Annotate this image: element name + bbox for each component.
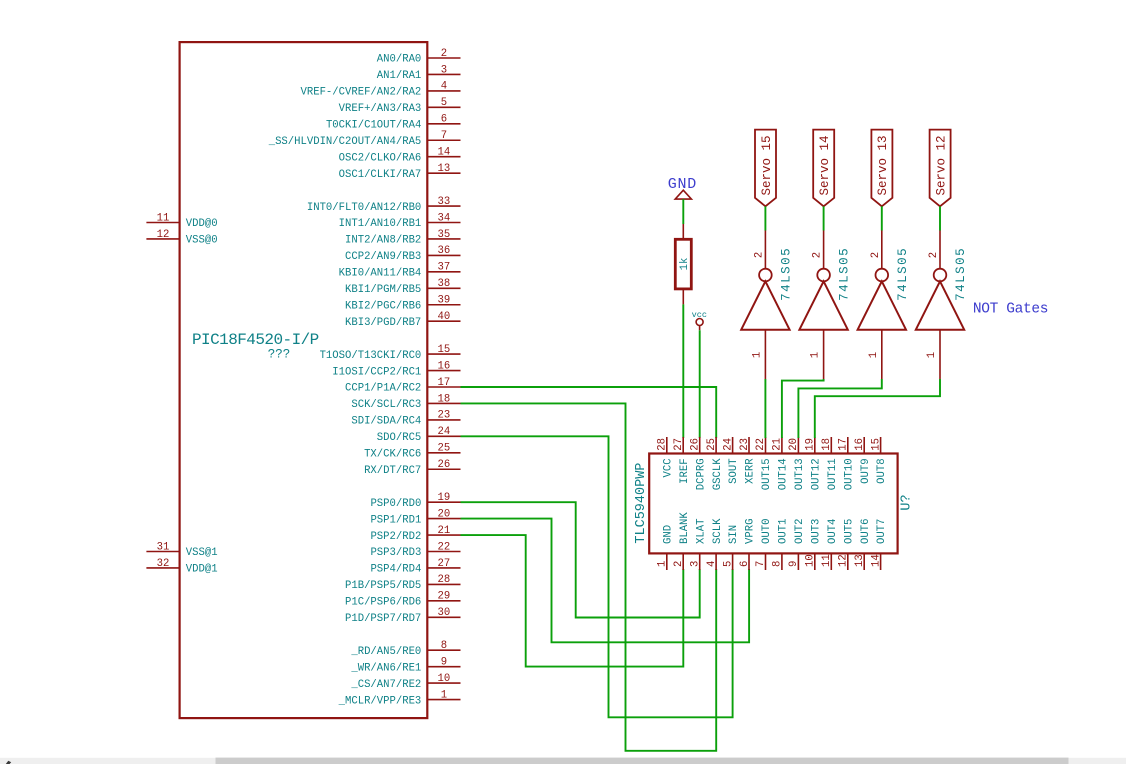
global label Servo 12 xyxy=(930,130,951,207)
svg-text:8: 8 xyxy=(772,561,784,567)
IC U1 PIC18F4520-I/P body xyxy=(180,42,428,718)
wire RC5/SDO to TLC pin5 SIN xyxy=(461,436,733,717)
svg-text:2: 2 xyxy=(928,252,940,258)
svg-text:4: 4 xyxy=(706,561,718,567)
svg-text:7: 7 xyxy=(441,130,447,142)
wire gate 4 input to TLC xyxy=(815,379,940,438)
svg-text:U?: U? xyxy=(899,494,914,510)
svg-text:34: 34 xyxy=(438,212,451,224)
svg-text:37: 37 xyxy=(438,262,451,274)
svg-text:IREF: IREF xyxy=(679,458,691,483)
pin 32 VDD@1 xyxy=(146,558,217,576)
svg-text:PSP3/RD3: PSP3/RD3 xyxy=(370,547,421,559)
svg-text:10: 10 xyxy=(438,673,451,685)
svg-text:VDD@1: VDD@1 xyxy=(186,564,218,576)
svg-text:NOT Gates: NOT Gates xyxy=(973,301,1048,317)
svg-text:SDO/RC5: SDO/RC5 xyxy=(377,432,422,444)
svg-text:KBI0/AN11/RB4: KBI0/AN11/RB4 xyxy=(339,268,422,280)
svg-text:16: 16 xyxy=(438,360,451,372)
pin 11 VDD@0 xyxy=(146,212,217,230)
svg-text:8: 8 xyxy=(441,640,447,652)
wire Servo 12 to gate input xyxy=(939,206,941,230)
TLC pin 2 BLANK xyxy=(673,512,691,570)
pin 9 _WR/AN6/RE1 xyxy=(350,656,460,674)
pin 20 PSP1/RD1 xyxy=(370,508,460,526)
svg-text:_SS/HLVDIN/C2OUT/AN4/RA5: _SS/HLVDIN/C2OUT/AN4/RA5 xyxy=(268,136,422,148)
pin 24 SDO/RC5 xyxy=(377,426,461,444)
NOT gate U?A 74LS05 xyxy=(741,231,793,380)
svg-text:PSP1/RD1: PSP1/RD1 xyxy=(370,514,421,526)
svg-text:1: 1 xyxy=(810,352,822,358)
wire vcc to TLC pin26 DCPRG xyxy=(699,330,701,438)
TLC pin 26 DCPRG xyxy=(689,437,707,490)
wire gate 2 input to TLC xyxy=(782,379,824,438)
svg-text:OSC1/CLKI/RA7: OSC1/CLKI/RA7 xyxy=(339,169,422,181)
TLC pin 12 OUT5 xyxy=(838,519,856,570)
pin 38 KBI1/PGM/RB5 xyxy=(345,278,460,296)
pin 19 PSP0/RD0 xyxy=(370,492,460,510)
svg-text:25: 25 xyxy=(706,438,718,451)
pin 16 I1OSI/CCP2/RC1 xyxy=(332,360,460,378)
pin 4 VREF-/CVREF/AN2/RA2 xyxy=(301,81,461,99)
svg-text:VCC: VCC xyxy=(662,458,674,477)
svg-text:P1D/PSP7/RD7: P1D/PSP7/RD7 xyxy=(345,613,421,625)
svg-text:_CS/AN7/RE2: _CS/AN7/RE2 xyxy=(350,679,421,691)
wire Servo 13 to gate input xyxy=(881,206,883,230)
svg-text:12: 12 xyxy=(157,229,170,241)
TLC pin 11 OUT4 xyxy=(821,519,839,570)
TLC pin 28 VCC xyxy=(657,437,675,477)
pin 40 KBI3/PGD/RB7 xyxy=(345,311,460,329)
svg-text:Servo 15: Servo 15 xyxy=(760,135,774,195)
svg-text:22: 22 xyxy=(755,438,767,451)
svg-text:2: 2 xyxy=(753,252,765,258)
scrollbar track xyxy=(0,758,1126,764)
svg-text:10: 10 xyxy=(805,554,817,567)
pin 13 OSC1/CLKI/RA7 xyxy=(339,163,461,181)
svg-text:T0CKI/C1OUT/RA4: T0CKI/C1OUT/RA4 xyxy=(326,120,421,132)
svg-text:PIC18F4520-I/P: PIC18F4520-I/P xyxy=(192,331,319,349)
cursor glyph bottom-left xyxy=(6,761,11,764)
pin 5 VREF+/AN3/RA3 xyxy=(339,97,461,115)
svg-text:OUT7: OUT7 xyxy=(876,519,888,544)
svg-text:74LS05: 74LS05 xyxy=(954,247,968,301)
TLC pin 22 OUT15 xyxy=(755,437,773,490)
power symbol vcc xyxy=(692,310,707,330)
svg-text:OUT4: OUT4 xyxy=(827,519,839,544)
svg-text:31: 31 xyxy=(157,541,170,553)
svg-text:24: 24 xyxy=(722,438,734,451)
svg-text:SOUT: SOUT xyxy=(728,458,740,483)
svg-text:2: 2 xyxy=(441,48,447,60)
svg-text:T1OSO/T13CKI/RC0: T1OSO/T13CKI/RC0 xyxy=(320,350,422,362)
svg-text:4: 4 xyxy=(441,81,447,93)
svg-text:3: 3 xyxy=(441,64,447,76)
svg-text:2: 2 xyxy=(812,252,824,258)
svg-text:11: 11 xyxy=(157,212,170,224)
svg-text:74LS05: 74LS05 xyxy=(779,247,793,301)
svg-text:14: 14 xyxy=(438,147,451,159)
svg-text:20: 20 xyxy=(438,508,451,520)
pin 34 INT1/AN10/RB1 xyxy=(339,212,461,230)
scrollbar thumb xyxy=(216,758,1069,764)
svg-text:GND: GND xyxy=(662,525,674,544)
svg-text:VREF-/CVREF/AN2/RA2: VREF-/CVREF/AN2/RA2 xyxy=(301,87,422,99)
svg-text:OUT13: OUT13 xyxy=(794,458,806,490)
svg-text:1: 1 xyxy=(868,352,880,358)
svg-text:74LS05: 74LS05 xyxy=(838,247,852,301)
pin 15 T1OSO/T13CKI/RC0 xyxy=(320,344,461,362)
svg-text:Servo 14: Servo 14 xyxy=(818,135,832,195)
pin 30 P1D/PSP7/RD7 xyxy=(345,607,460,625)
svg-text:VSS@0: VSS@0 xyxy=(186,235,218,247)
svg-text:1k: 1k xyxy=(679,258,691,271)
pin 28 P1B/PSP5/RD5 xyxy=(345,574,460,592)
svg-text:20: 20 xyxy=(788,438,800,451)
IC U? TLC5940PWP body xyxy=(649,454,897,554)
TLC pin 16 OUT9 xyxy=(854,437,872,484)
svg-text:18: 18 xyxy=(821,438,833,451)
wire GND to resistor xyxy=(682,199,684,224)
svg-text:CCP2/AN9/RB3: CCP2/AN9/RB3 xyxy=(345,251,421,263)
svg-text:OUT3: OUT3 xyxy=(810,519,822,544)
svg-text:21: 21 xyxy=(772,438,784,451)
pin 3 AN1/RA1 xyxy=(377,64,461,82)
power symbol GND xyxy=(668,176,697,199)
TLC pin 5 SIN xyxy=(722,525,740,570)
svg-text:OUT6: OUT6 xyxy=(860,519,872,544)
svg-text:23: 23 xyxy=(739,438,751,451)
TLC pin 1 GND xyxy=(657,525,675,570)
pin 14 OSC2/CLKO/RA6 xyxy=(339,147,461,165)
svg-text:19: 19 xyxy=(438,492,451,504)
svg-text:VREF+/AN3/RA3: VREF+/AN3/RA3 xyxy=(339,103,422,115)
svg-text:1: 1 xyxy=(657,561,669,567)
svg-text:13: 13 xyxy=(854,554,866,567)
svg-text:38: 38 xyxy=(438,278,451,290)
svg-text:BLANK: BLANK xyxy=(679,512,691,544)
svg-text:KBI2/PGC/RB6: KBI2/PGC/RB6 xyxy=(345,300,421,312)
svg-text:CCP1/P1A/RC2: CCP1/P1A/RC2 xyxy=(345,383,421,395)
svg-text:VDD@0: VDD@0 xyxy=(186,218,218,230)
pin 1 _MCLR/VPP/RE3 xyxy=(338,689,461,707)
TLC pin 18 OUT11 xyxy=(821,437,839,490)
TLC pin 3 XLAT xyxy=(689,519,707,570)
TLC pin 21 OUT14 xyxy=(772,437,790,490)
TLC pin 4 SCLK xyxy=(706,518,724,570)
svg-text:AN1/RA1: AN1/RA1 xyxy=(377,70,422,82)
svg-text:3: 3 xyxy=(689,561,701,567)
svg-text:36: 36 xyxy=(438,245,451,257)
TLC pin 17 OUT10 xyxy=(838,437,856,490)
svg-text:AN0/RA0: AN0/RA0 xyxy=(377,54,422,66)
svg-text:18: 18 xyxy=(438,393,451,405)
svg-text:_RD/AN5/RE0: _RD/AN5/RE0 xyxy=(350,646,421,658)
wire Servo 14 to gate input xyxy=(823,206,825,230)
pin 23 SDI/SDA/RC4 xyxy=(351,410,460,428)
pin 39 KBI2/PGC/RB6 xyxy=(345,295,460,313)
svg-text:39: 39 xyxy=(438,295,451,307)
svg-text:SDI/SDA/RC4: SDI/SDA/RC4 xyxy=(351,416,421,428)
TLC pin 13 OUT6 xyxy=(854,519,872,570)
wire gate 1 input to TLC xyxy=(764,379,766,438)
svg-text:12: 12 xyxy=(838,554,850,567)
svg-text:17: 17 xyxy=(838,438,850,451)
wire RD0 to TLC pin3 XLAT xyxy=(461,502,700,617)
svg-text:15: 15 xyxy=(870,438,882,451)
pin 18 SCK/SCL/RC3 xyxy=(351,393,460,411)
svg-text:INT2/AN8/RB2: INT2/AN8/RB2 xyxy=(345,235,421,247)
svg-text:OSC2/CLKO/RA6: OSC2/CLKO/RA6 xyxy=(339,152,422,164)
svg-text:Servo 13: Servo 13 xyxy=(876,135,890,195)
svg-text:19: 19 xyxy=(805,438,817,451)
pin 7 _SS/HLVDIN/C2OUT/AN4/RA5 xyxy=(268,130,461,148)
svg-text:VSS@1: VSS@1 xyxy=(186,547,218,559)
wire resistor to TLC pin27 IREF xyxy=(682,304,684,438)
global label Servo 15 xyxy=(755,130,776,207)
svg-text:OUT15: OUT15 xyxy=(761,458,773,490)
pin 10 _CS/AN7/RE2 xyxy=(350,673,460,691)
svg-text:11: 11 xyxy=(821,554,833,567)
pin 37 KBI0/AN11/RB4 xyxy=(339,262,461,280)
svg-text:PSP2/RD2: PSP2/RD2 xyxy=(370,531,421,543)
wire RC2 to TLC pin25 GSCLK xyxy=(461,387,717,438)
svg-text:PSP0/RD0: PSP0/RD0 xyxy=(370,498,421,510)
svg-text:OUT0: OUT0 xyxy=(761,519,773,544)
pin 2 AN0/RA0 xyxy=(377,48,461,66)
svg-text:25: 25 xyxy=(438,443,451,455)
svg-text:Servo 12: Servo 12 xyxy=(934,135,948,195)
TLC pin 19 OUT12 xyxy=(805,437,823,490)
svg-text:74LS05: 74LS05 xyxy=(896,247,910,301)
svg-text:13: 13 xyxy=(438,163,451,175)
svg-text:6: 6 xyxy=(441,114,447,126)
svg-text:9: 9 xyxy=(441,656,447,668)
svg-text:KBI1/PGM/RB5: KBI1/PGM/RB5 xyxy=(345,284,421,296)
svg-text:1: 1 xyxy=(926,352,938,358)
svg-text:35: 35 xyxy=(438,229,451,241)
svg-text:28: 28 xyxy=(657,438,669,451)
global label Servo 14 xyxy=(813,130,834,207)
pin 6 T0CKI/C1OUT/RA4 xyxy=(326,114,461,132)
svg-text:9: 9 xyxy=(788,561,800,567)
NOT gate U?D 74LS05 xyxy=(916,231,968,380)
svg-text:7: 7 xyxy=(755,561,767,567)
svg-text:???: ??? xyxy=(268,348,291,362)
svg-text:15: 15 xyxy=(438,344,451,356)
TLC pin 7 OUT0 xyxy=(755,519,773,570)
svg-text:OUT14: OUT14 xyxy=(778,458,790,490)
TLC pin 8 OUT1 xyxy=(772,519,790,570)
svg-text:OUT11: OUT11 xyxy=(827,458,839,490)
pin 25 TX/CK/RC6 xyxy=(364,443,460,461)
TLC pin 9 OUT2 xyxy=(788,519,806,570)
pin 17 CCP1/P1A/RC2 xyxy=(345,377,460,395)
TLC pin 27 IREF xyxy=(673,437,691,484)
wire RD1 to TLC pin6 VPRG xyxy=(461,519,750,643)
svg-text:24: 24 xyxy=(438,426,451,438)
svg-text:INT0/FLT0/AN12/RB0: INT0/FLT0/AN12/RB0 xyxy=(307,202,421,214)
svg-text:INT1/AN10/RB1: INT1/AN10/RB1 xyxy=(339,218,422,230)
svg-text:XERR: XERR xyxy=(745,458,757,484)
svg-text:32: 32 xyxy=(157,558,170,570)
TLC pin 24 SOUT xyxy=(722,437,740,484)
svg-text:26: 26 xyxy=(438,459,451,471)
svg-text:28: 28 xyxy=(438,574,451,586)
svg-text:OUT1: OUT1 xyxy=(778,519,790,544)
svg-text:27: 27 xyxy=(438,558,451,570)
svg-text:RX/DT/RC7: RX/DT/RC7 xyxy=(364,465,421,477)
pin 8 _RD/AN5/RE0 xyxy=(350,640,460,658)
svg-text:P1B/PSP5/RD5: P1B/PSP5/RD5 xyxy=(345,580,421,592)
svg-text:21: 21 xyxy=(438,525,451,537)
svg-text:33: 33 xyxy=(438,196,451,208)
svg-text:SIN: SIN xyxy=(728,525,740,544)
svg-text:1: 1 xyxy=(751,352,763,358)
svg-text:KBI3/PGD/RB7: KBI3/PGD/RB7 xyxy=(345,317,421,329)
global label Servo 13 xyxy=(871,130,892,207)
svg-text:XLAT: XLAT xyxy=(695,519,707,544)
resistor R? 1k xyxy=(675,224,691,304)
svg-text:26: 26 xyxy=(689,438,701,451)
pin 36 CCP2/AN9/RB3 xyxy=(345,245,460,263)
wire RC3 to TLC pin4 SCLK xyxy=(461,403,717,750)
pin 21 PSP2/RD2 xyxy=(370,525,460,543)
wire RD2 to TLC pin2 BLANK xyxy=(461,535,684,667)
svg-text:OUT12: OUT12 xyxy=(810,458,822,490)
svg-text:29: 29 xyxy=(438,591,451,603)
svg-text:2: 2 xyxy=(870,252,882,258)
svg-text:TLC5940PWP: TLC5940PWP xyxy=(634,463,649,544)
svg-text:40: 40 xyxy=(438,311,451,323)
TLC pin 6 VPRG xyxy=(739,519,757,570)
TLC pin 10 OUT3 xyxy=(805,519,823,570)
TLC pin 15 OUT8 xyxy=(870,437,888,484)
svg-text:SCK/SCL/RC3: SCK/SCL/RC3 xyxy=(351,399,421,411)
pin 29 P1C/PSP6/RD6 xyxy=(345,591,460,609)
pin 26 RX/DT/RC7 xyxy=(364,459,460,477)
pin 22 PSP3/RD3 xyxy=(370,541,460,559)
pin 27 PSP4/RD4 xyxy=(370,558,460,576)
svg-text:5: 5 xyxy=(722,561,734,567)
pin 35 INT2/AN8/RB2 xyxy=(345,229,460,247)
svg-text:VPRG: VPRG xyxy=(745,519,757,544)
svg-text:SCLK: SCLK xyxy=(712,518,724,544)
svg-text:P1C/PSP6/RD6: P1C/PSP6/RD6 xyxy=(345,597,421,609)
svg-text:22: 22 xyxy=(438,541,451,553)
TLC pin 14 OUT7 xyxy=(870,519,888,570)
svg-text:2: 2 xyxy=(673,561,685,567)
pin 12 VSS@0 xyxy=(146,229,217,247)
svg-text:1: 1 xyxy=(441,689,447,701)
TLC pin 23 XERR xyxy=(739,437,757,484)
NOT gate U?C 74LS05 xyxy=(858,231,910,380)
svg-text:I1OSI/CCP2/RC1: I1OSI/CCP2/RC1 xyxy=(332,366,421,378)
wire gate 3 input to TLC xyxy=(798,379,881,438)
pin 31 VSS@1 xyxy=(146,541,217,559)
TLC pin 25 GSCLK xyxy=(706,437,724,490)
wire Servo 15 to gate input xyxy=(764,206,766,230)
svg-text:6: 6 xyxy=(739,561,751,567)
svg-text:23: 23 xyxy=(438,410,451,422)
pin 33 INT0/FLT0/AN12/RB0 xyxy=(307,196,461,214)
svg-text:DCPRG: DCPRG xyxy=(695,458,707,490)
NOT gate U?B 74LS05 xyxy=(799,231,851,380)
svg-text:OUT8: OUT8 xyxy=(876,458,888,483)
svg-text:OUT2: OUT2 xyxy=(794,519,806,544)
svg-text:14: 14 xyxy=(870,554,882,567)
svg-text:5: 5 xyxy=(441,97,447,109)
svg-text:TX/CK/RC6: TX/CK/RC6 xyxy=(364,449,421,461)
svg-text:OUT9: OUT9 xyxy=(860,458,872,483)
svg-text:27: 27 xyxy=(673,438,685,451)
svg-text:GSCLK: GSCLK xyxy=(712,458,724,490)
svg-text:_MCLR/VPP/RE3: _MCLR/VPP/RE3 xyxy=(338,695,422,707)
svg-text:16: 16 xyxy=(854,438,866,451)
svg-text:PSP4/RD4: PSP4/RD4 xyxy=(370,564,421,576)
svg-text:_WR/AN6/RE1: _WR/AN6/RE1 xyxy=(350,662,421,674)
svg-text:17: 17 xyxy=(438,377,451,389)
TLC pin 20 OUT13 xyxy=(788,437,806,490)
svg-text:30: 30 xyxy=(438,607,451,619)
svg-text:OUT10: OUT10 xyxy=(843,458,855,490)
svg-text:OUT5: OUT5 xyxy=(843,519,855,544)
